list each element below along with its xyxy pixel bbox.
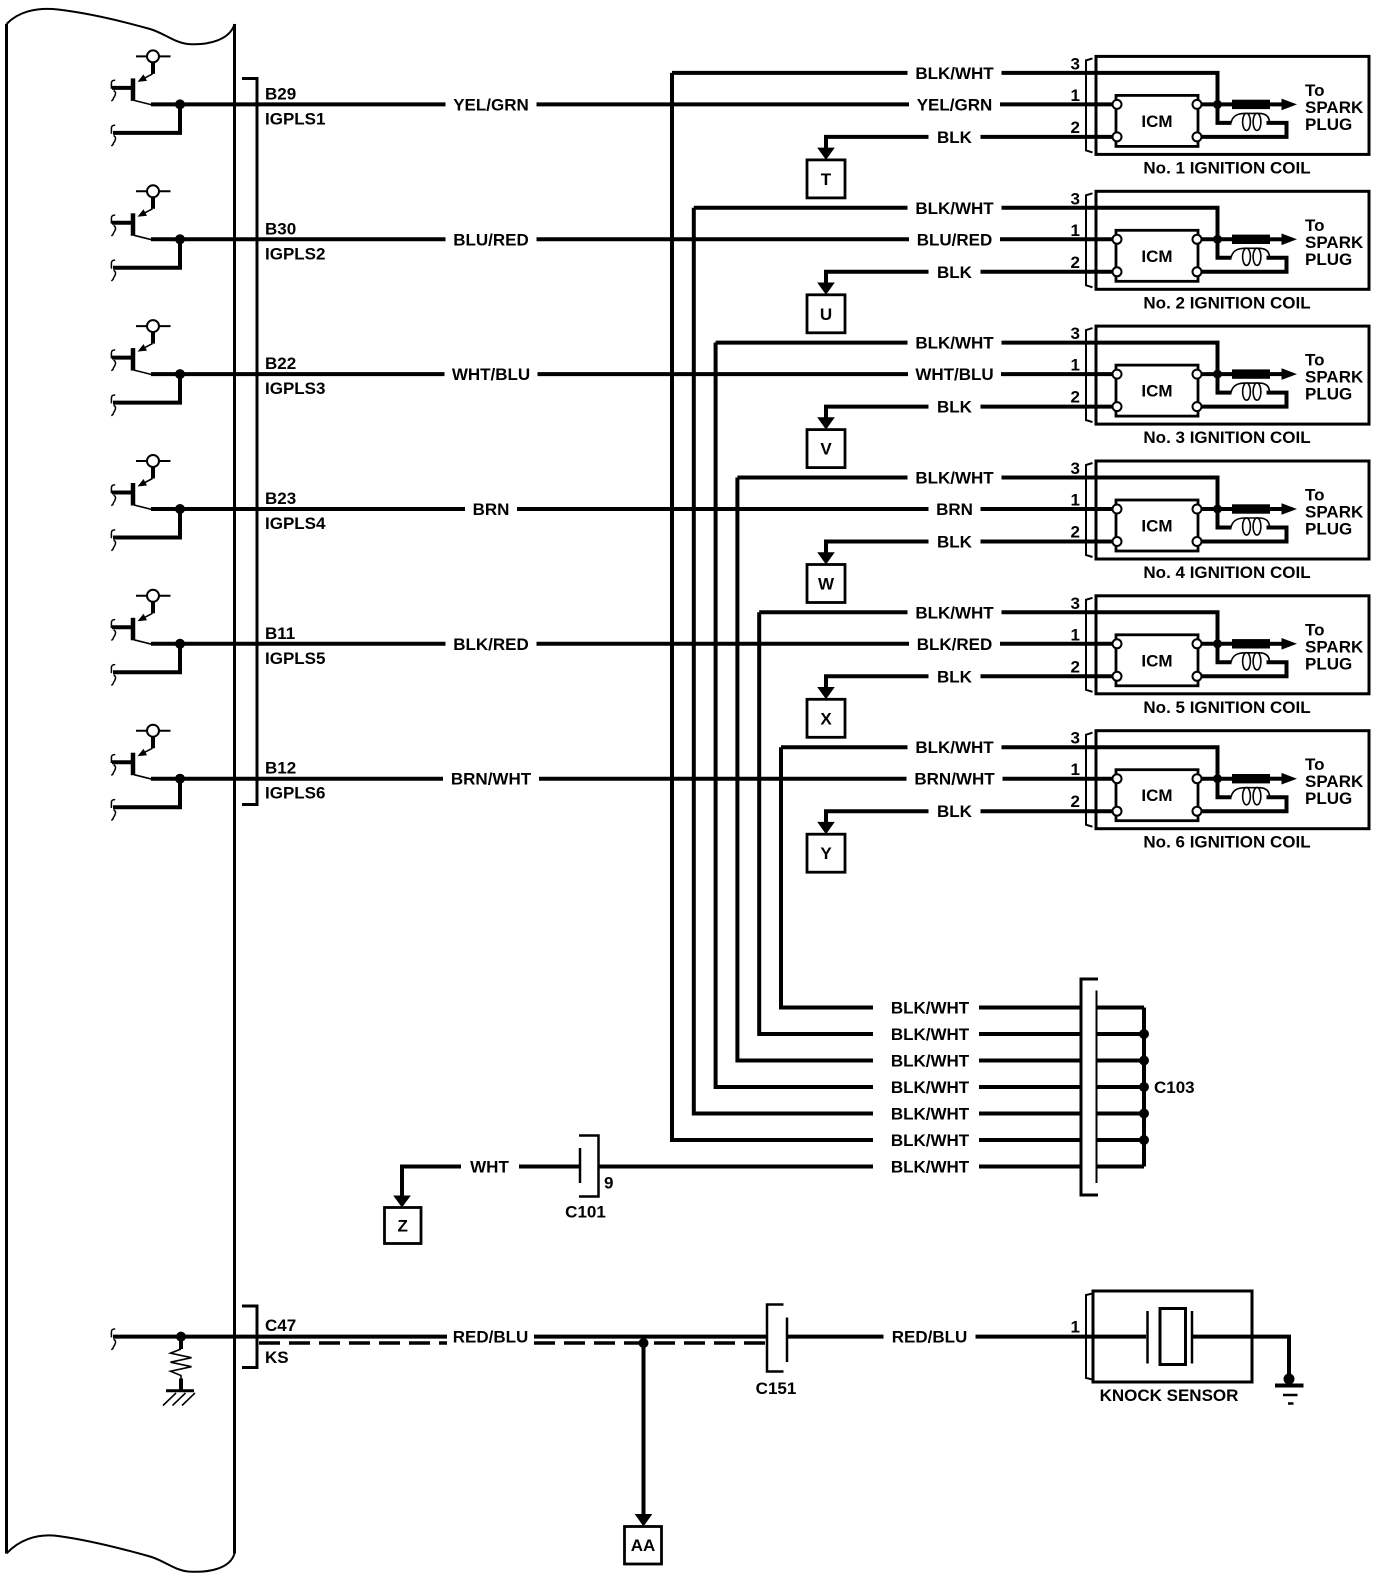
node V box <box>807 430 845 468</box>
wire BLK coil 2 pin 2 elbow to arrow <box>826 272 929 284</box>
transistor Q2 top circle <box>147 185 159 197</box>
wire Q1 lower lead <box>113 104 180 132</box>
svg-text:IGPLS5: IGPLS5 <box>265 649 325 668</box>
node W box <box>807 565 845 603</box>
inductor L4 winding arc <box>1231 518 1270 528</box>
wire BLK/WHT vertical from coil 4 to C103 <box>737 478 873 1061</box>
wire coil 1 pin 3 internal <box>1096 73 1218 105</box>
svg-text:1: 1 <box>1071 1318 1080 1337</box>
wire to spark plug arrow shaft coil 2 <box>1270 237 1283 241</box>
wire coil 1 pin 1 internal <box>1096 102 1113 106</box>
wire RED/BLU to knock sensor <box>976 1335 1147 1339</box>
crystal right plate <box>1191 1311 1194 1364</box>
ground symbol below R1 bar <box>166 1389 194 1392</box>
wire Q3 lower lead <box>113 374 180 403</box>
coil 6 primary bar <box>1232 774 1270 783</box>
svg-text:WHT: WHT <box>470 1158 509 1177</box>
coil 2 primary bar <box>1232 235 1270 244</box>
ICM terminal circle in2 coil 4 <box>1113 537 1122 546</box>
wire ICM output coil 4 <box>1202 507 1234 511</box>
transistor Q4 emitter arrowhead <box>138 479 148 487</box>
wire coil 4 pin 1 internal <box>1096 507 1113 511</box>
connector C101 inner bar <box>579 1148 582 1183</box>
op-amp U3 ICM box <box>1116 365 1198 416</box>
inductor L4 loop 1 <box>1243 518 1251 535</box>
svg-text:9: 9 <box>604 1174 613 1193</box>
ignition coil 5 box <box>1096 596 1369 694</box>
transistor Q6 collector load line <box>136 730 171 732</box>
wire BLK/WHT vertical from coil 1 to C103 <box>672 73 873 1140</box>
transistor Q1 base lead <box>112 86 131 90</box>
wire break curl at lower lead Q6 <box>111 800 115 821</box>
svg-text:RED/BLU: RED/BLU <box>453 1328 529 1347</box>
transistor Q5 emitter diagonal <box>142 613 153 619</box>
svg-text:No. 6 IGNITION COIL: No. 6 IGNITION COIL <box>1143 833 1310 852</box>
wire C103 row 2 to bus <box>1097 1032 1144 1036</box>
junction dot coil 2 secondary <box>1213 235 1222 244</box>
svg-text:BRN: BRN <box>936 500 973 519</box>
svg-text:BLK: BLK <box>937 667 973 686</box>
wire break curl at KS lead <box>111 1329 115 1350</box>
wire break curl at lower lead Q4 <box>111 530 115 551</box>
wire coil 2 pin 3 internal <box>1096 208 1218 240</box>
wire coil 4 pin 3 internal <box>1096 478 1218 510</box>
wire coil 6 secondary left <box>1218 781 1232 798</box>
ground hatch 3 <box>182 1393 195 1406</box>
transistor Q1 collector load line <box>136 55 171 57</box>
wire BLK/WHT coil 4 pin 3 right segment <box>1002 476 1097 480</box>
connector C151 inner bar <box>786 1318 789 1363</box>
wire to spark plug arrow shaft coil 3 <box>1270 372 1283 376</box>
transistor Q2 collector diagonal <box>134 235 152 240</box>
transistor Q4 base lead <box>112 491 131 495</box>
wire coil 1 secondary left <box>1218 106 1232 123</box>
transistor Q5 emitter arrowhead <box>138 614 148 622</box>
wire coil 4 secondary right <box>1202 528 1287 542</box>
coil 1 primary bar <box>1232 100 1270 109</box>
wire BLK/WHT coil 2 pin 3 right segment <box>1002 206 1097 210</box>
wire BLU/RED to coil 2 pin 1 <box>1000 237 1096 241</box>
ICM terminal circle out2 coil 1 <box>1193 132 1202 141</box>
transistor Q2 base bar <box>131 213 136 236</box>
svg-text:IGPLS6: IGPLS6 <box>265 784 325 803</box>
wire elbow down to node Z <box>400 1165 404 1197</box>
arrowhead into box U <box>817 283 835 295</box>
ICM terminal circle in1 coil 6 <box>1113 774 1122 783</box>
transistor Q1 top circle <box>147 50 159 62</box>
svg-text:B23: B23 <box>265 489 296 508</box>
wire coil 3 secondary left <box>1218 376 1232 393</box>
wire break curl at lower lead Q2 <box>111 260 115 281</box>
wire WHT/BLU after left label <box>538 372 909 376</box>
wire RED/BLU mid segment <box>534 1335 767 1339</box>
svg-text:BRN: BRN <box>473 500 510 519</box>
ICM terminal circle out2 coil 5 <box>1193 672 1202 681</box>
transistor Q3 emitter diagonal <box>142 344 153 350</box>
svg-text:PLUG: PLUG <box>1305 250 1352 269</box>
junction dot on Q3 output <box>175 369 185 379</box>
svg-text:Y: Y <box>820 844 832 863</box>
transistor Q3 collector diagonal <box>134 370 152 375</box>
wire BRN/WHT after left label <box>539 777 907 781</box>
svg-text:WHT/BLU: WHT/BLU <box>452 365 530 384</box>
connector bracket at coil 5 <box>1086 598 1093 692</box>
arrowhead to spark plug coil 3 <box>1282 368 1298 380</box>
transistor Q6 base bar <box>131 753 136 776</box>
wire coil 3 pin 2 internal <box>1096 405 1113 409</box>
wire ICM output coil 2 <box>1202 237 1234 241</box>
inductor L5 winding arc <box>1231 653 1270 663</box>
svg-text:3: 3 <box>1071 459 1080 478</box>
transistor Q3 top circle <box>147 320 159 332</box>
junction dot on Q1 output <box>175 99 185 109</box>
wire break curl at base lead Q1 <box>111 80 115 101</box>
svg-text:C103: C103 <box>1154 1078 1195 1097</box>
transistor Q5 base lead <box>112 625 131 629</box>
svg-text:BLK/WHT: BLK/WHT <box>891 1105 970 1124</box>
inductor L6 winding arc <box>1231 788 1270 798</box>
junction dot on Q2 output <box>175 234 185 244</box>
ignition coil 1 box <box>1096 56 1369 154</box>
svg-text:No. 5 IGNITION COIL: No. 5 IGNITION COIL <box>1143 698 1310 717</box>
shield dashed line left <box>259 1341 447 1345</box>
transistor Q3 emitter lead <box>151 332 155 344</box>
ICM terminal circle in1 coil 1 <box>1113 100 1122 109</box>
wire break curl at base lead Q2 <box>111 215 115 236</box>
wire BLK/WHT coil 1 pin 3 left segment <box>672 71 908 75</box>
ECM connector bracket B-pins <box>242 79 257 805</box>
svg-text:BLK: BLK <box>937 802 973 821</box>
inductor L6 loop 1 <box>1243 788 1251 805</box>
wire C103 row 5 to bus <box>1097 1112 1144 1116</box>
ground hatch 2 <box>173 1393 186 1406</box>
op-amp U6 ICM box <box>1116 770 1198 821</box>
wire to spark plug arrow shaft coil 5 <box>1270 642 1283 646</box>
wire KS from ECM <box>113 1335 447 1339</box>
ground G2 bar 1 <box>1275 1384 1304 1388</box>
wire BLK coil 4 pin 2 elbow to arrow <box>826 542 929 554</box>
wire coil 1 pin 2 internal <box>1096 135 1113 139</box>
connector bracket at coil 6 <box>1086 733 1093 827</box>
inductor L2 loop 2 <box>1253 248 1261 265</box>
wire coil 5 pin 3 internal <box>1096 612 1218 644</box>
wire C103 common bus <box>1142 1008 1146 1167</box>
svg-text:C47: C47 <box>265 1316 296 1335</box>
svg-text:No. 3 IGNITION COIL: No. 3 IGNITION COIL <box>1143 428 1310 447</box>
op-amp U1 ICM box <box>1116 95 1198 146</box>
wire BLK/RED after left label <box>537 642 910 646</box>
svg-text:BLU/RED: BLU/RED <box>917 230 993 249</box>
svg-text:YEL/GRN: YEL/GRN <box>917 95 993 114</box>
svg-text:2: 2 <box>1071 792 1080 811</box>
wire BLK/WHT vertical from coil 2 to C103 <box>694 208 873 1114</box>
transistor Q1 emitter lead <box>151 62 155 74</box>
wire BRN to coil 4 pin 1 <box>981 507 1097 511</box>
connector C101 bracket <box>579 1136 599 1197</box>
wire BLK coil 5 pin 2 elbow to arrow <box>826 676 929 688</box>
arrowhead to spark plug coil 5 <box>1282 638 1298 650</box>
junction dot C103 bus row 3 <box>1139 1056 1149 1066</box>
node AA box <box>625 1527 662 1565</box>
transistor Q2 collector load line <box>136 190 171 192</box>
wire BRN/WHT to coil 6 pin 1 <box>1003 777 1097 781</box>
ECM/PCM module right edge <box>233 24 236 1554</box>
svg-text:No. 4 IGNITION COIL: No. 4 IGNITION COIL <box>1143 563 1310 582</box>
svg-text:BLK/WHT: BLK/WHT <box>915 469 994 488</box>
connector bracket at coil 3 <box>1086 328 1093 422</box>
crystal body rect <box>1160 1309 1186 1365</box>
ICM terminal circle in2 coil 2 <box>1113 267 1122 276</box>
wire C103 row 6 to bus <box>1097 1138 1144 1142</box>
transistor Q1 collector diagonal <box>134 100 152 105</box>
ICM terminal circle in2 coil 1 <box>1113 132 1122 141</box>
svg-text:T: T <box>821 170 832 189</box>
wire Q2 lower lead <box>113 239 180 267</box>
svg-text:1: 1 <box>1071 356 1080 375</box>
svg-text:BLK/WHT: BLK/WHT <box>915 603 994 622</box>
transistor Q5 emitter lead <box>151 602 155 614</box>
junction dot coil 3 secondary <box>1213 370 1222 379</box>
ICM terminal circle out1 coil 4 <box>1193 505 1202 514</box>
wire BLU/RED after left label <box>537 237 910 241</box>
inductor L1 loop 1 <box>1243 113 1251 130</box>
ICM terminal circle out2 coil 2 <box>1193 267 1202 276</box>
connector bracket at coil 4 <box>1086 463 1093 557</box>
transistor Q2 base lead <box>112 221 131 225</box>
svg-text:BLK/RED: BLK/RED <box>917 635 993 654</box>
svg-text:PLUG: PLUG <box>1305 115 1352 134</box>
arrowhead into node Z <box>393 1196 411 1208</box>
wire BLK coil 1 pin 2 right segment <box>981 135 1097 139</box>
wire BLK/WHT vertical from coil 6 to C103 <box>781 747 873 1007</box>
connector bracket C47 <box>242 1306 257 1368</box>
resistor R1 zigzag <box>171 1349 192 1379</box>
ignition coil 2 box <box>1096 191 1369 289</box>
transistor Q5 collector diagonal <box>134 640 152 645</box>
junction dot on Q6 output <box>175 774 185 784</box>
junction dot C103 bus row 4 <box>1139 1082 1149 1092</box>
junction dot coil 4 secondary <box>1213 505 1222 514</box>
wire to spark plug arrow shaft coil 6 <box>1270 777 1283 781</box>
ICM terminal circle out1 coil 6 <box>1193 774 1202 783</box>
inductor L6 loop 2 <box>1253 788 1261 805</box>
svg-text:ICM: ICM <box>1141 786 1172 805</box>
transistor Q5 top circle <box>147 590 159 602</box>
wire break curl at base lead Q6 <box>111 755 115 776</box>
wire Q4 lower lead <box>113 509 180 538</box>
transistor Q6 top circle <box>147 725 159 737</box>
node T box <box>807 160 845 198</box>
ICM terminal circle in1 coil 4 <box>1113 505 1122 514</box>
wire coil 4 pin 2 internal <box>1096 540 1113 544</box>
node X box <box>807 699 845 737</box>
wire BLK/WHT coil 2 pin 3 left segment <box>694 206 908 210</box>
wire coil 1 secondary right <box>1202 123 1287 137</box>
wire BLK/WHT to C103 row 5 <box>979 1112 1081 1116</box>
transistor Q2 emitter lead <box>151 197 155 209</box>
wire YEL/GRN after left label <box>537 102 910 106</box>
wire BLK/WHT row 7 to C103 <box>979 1165 1081 1169</box>
transistor Q6 emitter arrowhead <box>138 749 148 757</box>
resistor R1 bottom stub <box>179 1379 183 1391</box>
wire to spark plug arrow shaft coil 4 <box>1270 507 1283 511</box>
wire knock sensor to ground <box>1192 1337 1289 1377</box>
wire BLK/WHT coil 5 pin 3 left segment <box>759 610 907 614</box>
wire BLK coil 4 pin 2 right segment <box>981 540 1097 544</box>
wire break curl at lower lead Q3 <box>111 395 115 416</box>
ignition coil 6 box <box>1096 731 1369 829</box>
transistor Q6 collector diagonal <box>134 775 152 780</box>
inductor L2 winding arc <box>1231 248 1270 257</box>
wire BLK/WHT coil 6 pin 3 left segment <box>781 745 908 749</box>
wire BLK/WHT to C103 row 6 <box>979 1138 1081 1142</box>
transistor Q1 emitter arrowhead <box>138 74 148 82</box>
svg-text:YEL/GRN: YEL/GRN <box>453 95 529 114</box>
svg-text:BRN/WHT: BRN/WHT <box>914 770 995 789</box>
inductor L2 loop 1 <box>1243 248 1251 265</box>
ICM terminal circle in1 coil 5 <box>1113 639 1122 648</box>
wire ICM output coil 1 <box>1202 102 1234 106</box>
wire RED/BLU from C151 <box>787 1335 884 1339</box>
connector bracket at coil 1 <box>1086 58 1093 152</box>
transistor Q4 top circle <box>147 455 159 467</box>
wire BLK/WHT to C103 row 3 <box>979 1059 1081 1063</box>
inductor L3 loop 1 <box>1243 383 1251 400</box>
junction dot coil 1 secondary <box>1213 100 1222 109</box>
wire C103 row 1 to bus <box>1097 1006 1144 1010</box>
transistor Q4 base bar <box>131 483 136 506</box>
svg-text:3: 3 <box>1071 729 1080 748</box>
wire coil 6 pin 3 internal <box>1096 747 1218 779</box>
wire Q6 output to pin B12 <box>151 777 443 781</box>
svg-text:V: V <box>820 440 832 459</box>
arrowhead into box V <box>817 417 835 429</box>
ICM terminal circle out1 coil 5 <box>1193 639 1202 648</box>
transistor Q4 collector diagonal <box>134 505 152 510</box>
transistor Q5 base bar <box>131 618 136 641</box>
op-amp U5 ICM box <box>1116 635 1198 686</box>
svg-text:No. 2 IGNITION COIL: No. 2 IGNITION COIL <box>1143 293 1310 312</box>
svg-text:IGPLS1: IGPLS1 <box>265 109 325 128</box>
svg-text:Z: Z <box>398 1217 408 1236</box>
arrowhead into box T <box>817 148 835 160</box>
transistor Q1 base bar <box>131 78 136 101</box>
ground G2 bar 2 <box>1283 1394 1298 1397</box>
junction dot C103 bus row 6 <box>1139 1135 1149 1145</box>
svg-text:BLU/RED: BLU/RED <box>453 230 529 249</box>
svg-text:1: 1 <box>1071 491 1080 510</box>
wire Q2 output to pin B30 <box>151 237 446 241</box>
inductor L1 winding arc <box>1231 113 1270 123</box>
arrowhead to spark plug coil 4 <box>1282 503 1298 515</box>
wire Q4 output to pin B23 <box>151 507 465 511</box>
svg-text:BRN/WHT: BRN/WHT <box>451 770 532 789</box>
transistor Q4 collector load line <box>136 460 171 462</box>
svg-text:B11: B11 <box>265 624 295 643</box>
wire ICM output coil 3 <box>1202 372 1234 376</box>
wire BLK/RED to coil 5 pin 1 <box>1000 642 1096 646</box>
svg-text:No. 1 IGNITION COIL: No. 1 IGNITION COIL <box>1143 158 1310 177</box>
arrowhead into box Y <box>817 822 835 834</box>
wire BRN after left label <box>517 507 929 511</box>
svg-text:PLUG: PLUG <box>1305 385 1352 404</box>
wire BLK coil 1 pin 2 elbow to arrow <box>826 137 929 149</box>
ICM terminal circle out1 coil 3 <box>1193 370 1202 379</box>
wire coil 6 pin 1 internal <box>1096 777 1113 781</box>
inductor L3 winding arc <box>1231 383 1270 393</box>
node Z box <box>385 1208 422 1244</box>
wire coil 2 secondary left <box>1218 241 1232 257</box>
junction dot KS resistor tap <box>176 1332 186 1342</box>
wire BLK/WHT coil 6 pin 3 right segment <box>1002 745 1097 749</box>
svg-text:BLK: BLK <box>937 398 973 417</box>
shield dashed line mid <box>534 1341 767 1345</box>
svg-text:B30: B30 <box>265 219 296 238</box>
svg-text:ICM: ICM <box>1141 517 1172 536</box>
connector bracket at coil 2 <box>1086 193 1093 287</box>
op-amp U2 ICM box <box>1116 230 1198 281</box>
svg-text:IGPLS2: IGPLS2 <box>265 244 325 263</box>
transistor Q3 base lead <box>112 356 131 360</box>
svg-text:3: 3 <box>1071 54 1080 73</box>
wire C103 row 4 to bus <box>1097 1085 1144 1089</box>
coil 4 primary bar <box>1232 504 1270 513</box>
arrowhead into box W <box>817 552 835 564</box>
wire coil 3 pin 3 internal <box>1096 343 1218 375</box>
inductor L5 loop 2 <box>1253 653 1261 670</box>
svg-text:3: 3 <box>1071 594 1080 613</box>
wire BLK/WHT coil 3 pin 3 left segment <box>716 341 908 345</box>
ICM terminal circle out1 coil 2 <box>1193 235 1202 244</box>
wire BLK/WHT to C103 row 4 <box>979 1085 1081 1089</box>
junction dot coil 5 secondary <box>1213 639 1222 648</box>
inductor L4 loop 2 <box>1253 518 1261 535</box>
svg-text:BLK/WHT: BLK/WHT <box>891 1025 970 1044</box>
svg-text:BLK/WHT: BLK/WHT <box>891 1158 970 1177</box>
arrowhead to spark plug coil 2 <box>1282 234 1298 246</box>
junction dot C103 bus row 2 <box>1139 1029 1149 1039</box>
ignition coil 4 box <box>1096 461 1369 559</box>
svg-text:2: 2 <box>1071 118 1080 137</box>
connector bracket at knock sensor <box>1086 1294 1093 1380</box>
svg-text:1: 1 <box>1071 221 1080 240</box>
svg-text:IGPLS4: IGPLS4 <box>265 514 326 533</box>
wire coil 2 pin 1 internal <box>1096 237 1113 241</box>
svg-text:BLK: BLK <box>937 533 973 552</box>
svg-text:B29: B29 <box>265 84 296 103</box>
transistor Q2 emitter diagonal <box>142 209 153 215</box>
svg-text:2: 2 <box>1071 523 1080 542</box>
transistor Q3 collector load line <box>136 325 171 327</box>
connector C103 bracket <box>1081 979 1098 1195</box>
wire coil 2 pin 2 internal <box>1096 270 1113 274</box>
wire coil 5 pin 2 internal <box>1096 674 1113 678</box>
wire break curl at lower lead Q5 <box>111 665 115 686</box>
ICM terminal circle out2 coil 4 <box>1193 537 1202 546</box>
ICM terminal circle in1 coil 2 <box>1113 235 1122 244</box>
wire C103 row 3 to bus <box>1097 1059 1144 1063</box>
svg-text:1: 1 <box>1071 760 1080 779</box>
wire BLK coil 2 pin 2 right segment <box>981 270 1097 274</box>
arrowhead to spark plug coil 1 <box>1282 99 1298 111</box>
wire BLK/WHT to C103 row 2 <box>979 1032 1081 1036</box>
transistor Q5 collector load line <box>136 595 171 597</box>
transistor Q3 base bar <box>131 348 136 371</box>
junction dot on Q4 output <box>175 504 185 514</box>
svg-text:BLK: BLK <box>937 128 973 147</box>
crystal left plate <box>1146 1311 1149 1364</box>
svg-text:BLK/WHT: BLK/WHT <box>891 999 970 1018</box>
